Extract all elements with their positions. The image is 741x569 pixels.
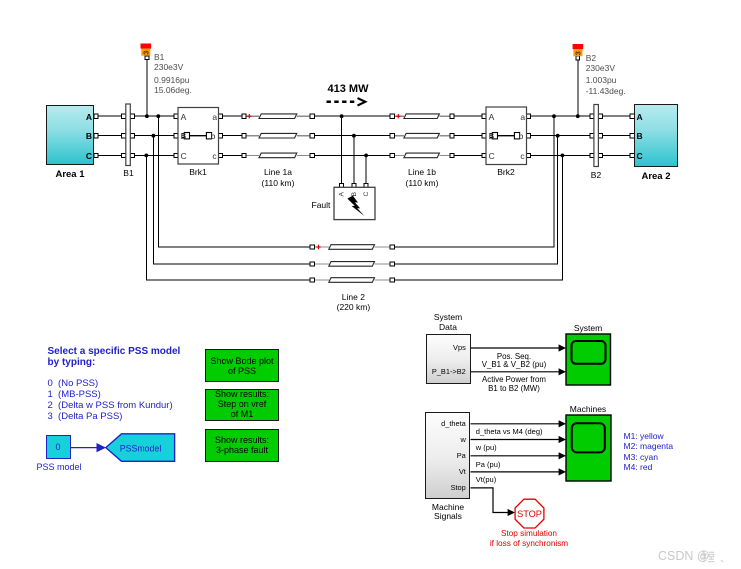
watermark CSDN: [658, 549, 710, 563]
wire line2 stub right: [375, 246, 393, 248]
wire d_theta to Machines scope: [471, 423, 560, 425]
annotation PSS list: [48, 379, 173, 422]
annotation B1 to B2 MW: [474, 384, 554, 393]
breaker Brk1: [178, 108, 219, 165]
button Show results 3-phase fault: [205, 429, 279, 462]
measurement block B1 (voltage label): [141, 44, 152, 56]
line segment Line2 phase B: [329, 262, 375, 267]
wire Stop to STOP block: [471, 488, 509, 513]
pin label Brk1 A: [181, 112, 187, 122]
label Machine Signals line2: [407, 511, 489, 521]
port Line1a left A: [242, 114, 246, 118]
port B2 right C: [598, 153, 602, 157]
annotation w pu: [476, 443, 497, 452]
junction Line2 tap C right: [561, 154, 565, 158]
wire line1b stub left: [393, 115, 404, 117]
port Brk2 b: [526, 134, 530, 138]
port Brk1 b: [219, 134, 223, 138]
annotation arrow 413 MW: [327, 98, 366, 105]
wire Line2 right tap phase B: [392, 136, 558, 264]
wire line1a stub left: [244, 135, 259, 137]
port B2 measurement: [576, 56, 580, 60]
scope Machines: [566, 415, 611, 481]
pin label Brk1 a: [212, 112, 217, 122]
port B1 right A: [130, 114, 134, 118]
wire line1b stub left: [393, 135, 404, 137]
port Brk2 C: [482, 153, 486, 157]
pin label w: [405, 435, 466, 444]
bus B1: [126, 104, 131, 166]
wire Line1b C to Brk2: [454, 154, 486, 156]
label Area 2: [626, 171, 686, 182]
port Fault A: [340, 183, 344, 187]
scope System: [566, 334, 611, 385]
line segment Line1b phase A: [404, 114, 440, 119]
subsystem Machine Signals: [425, 412, 470, 499]
wire line1b stub left: [393, 154, 404, 156]
wire Line2 right tap phase C: [392, 155, 562, 280]
port Line2 right 3: [390, 278, 394, 282]
port label Area2 B: [637, 131, 643, 141]
wire B1 B to Brk1: [134, 135, 178, 137]
wire Brk2 B to B2: [527, 135, 590, 137]
pin label Brk2 a: [520, 112, 525, 122]
port Area2 C: [630, 153, 634, 157]
annotation d_theta vs M4: [476, 427, 543, 436]
annotation Vt pu: [476, 475, 496, 484]
annotation M1-M4 colors: [624, 431, 674, 473]
port label Area2 A: [637, 112, 643, 122]
wire Line1b B to Brk2: [454, 135, 486, 137]
port B2 left A: [590, 114, 594, 118]
wire line2 stub right: [375, 263, 393, 265]
breaker Brk2: [486, 107, 527, 165]
port Brk1 a: [219, 114, 223, 118]
wire B2 C to Area2: [602, 154, 634, 156]
red marker Line1a: [247, 114, 251, 118]
port B2 left C: [590, 153, 594, 157]
label Machine Signals line1: [407, 502, 489, 512]
label Line 1a km: [248, 178, 308, 188]
wire Line2 left tap phase A: [158, 116, 310, 247]
junction Line2 tap B right: [556, 134, 560, 138]
pin label Brk1 c: [212, 151, 216, 161]
annotation V_B1 V_B2: [474, 360, 554, 369]
port Brk2 B: [482, 134, 486, 138]
label Area 1: [40, 169, 100, 180]
bus B2: [594, 105, 599, 167]
port Line2 right 1: [390, 245, 394, 249]
label System Data line1: [407, 312, 489, 322]
wire line1a stub right: [297, 115, 312, 117]
text B2 voltage: [586, 63, 615, 73]
svg-text:PSSmodel: PSSmodel: [120, 443, 162, 453]
port Brk2 a: [526, 114, 530, 118]
pin label Brk2 c: [520, 151, 524, 161]
wire line2 stub left: [312, 246, 329, 248]
line segment Line1a phase C: [259, 153, 297, 158]
text B1 angle: [154, 85, 192, 95]
wire B1 A to Brk1: [134, 115, 178, 117]
port Brk1 c: [219, 153, 223, 157]
port label Area1 B: [80, 131, 92, 141]
pin label Brk2 b: [519, 131, 524, 141]
wire line1b stub right: [439, 154, 451, 156]
annotation Pos Seq: [474, 352, 554, 361]
port Area1 A: [94, 114, 98, 118]
port Brk1 C: [174, 153, 178, 157]
line segment Line2 phase C: [329, 278, 375, 283]
line segment Line1b phase C: [404, 153, 440, 158]
label Line 1b: [392, 167, 452, 177]
pin label Brk2 C: [489, 151, 495, 161]
label Fault: [312, 200, 331, 210]
port Line2 left 2: [310, 262, 314, 266]
pin label d_theta: [405, 419, 466, 428]
junction B1 measurement tap: [145, 114, 149, 118]
junction fault tap A: [340, 114, 344, 118]
annotation Active Power: [474, 375, 554, 384]
port B1 left B: [122, 134, 126, 138]
wire Line1a B to Line1b: [314, 135, 391, 137]
wire Brk1 B to Line1a: [219, 135, 243, 137]
wire fault tap C: [365, 155, 367, 183]
subsystem System Data: [426, 334, 471, 384]
pin label Brk1 C: [181, 151, 187, 161]
text B2 pu: [586, 75, 617, 85]
measurement block B2 (voltage label): [573, 44, 584, 56]
junction Line2 tap B left: [152, 134, 156, 138]
STOP simulation block: [515, 499, 544, 528]
port Brk2 A: [482, 114, 486, 118]
port Area1 B: [94, 134, 98, 138]
wire Line2 left tap phase B: [153, 136, 310, 264]
wire Line2 right tap phase A: [392, 116, 554, 247]
port Line2 left 1: [310, 245, 314, 249]
wire Line1b A to Brk2: [454, 115, 486, 117]
wire B2 measurement stem: [577, 60, 579, 116]
goto tag PSSmodel: [106, 434, 175, 462]
port label Area1 C: [80, 151, 92, 161]
wire w to Machines scope: [471, 439, 560, 441]
port Line1a left B: [242, 134, 246, 138]
port B1 left A: [122, 114, 126, 118]
port Fault C: [364, 183, 368, 187]
line segment Line2 phase A: [329, 245, 375, 250]
pin label Brk2 A: [489, 112, 495, 122]
port B1 measurement: [145, 56, 149, 60]
text B1 pu: [154, 75, 189, 85]
red marker Line1b: [396, 114, 400, 118]
text B1 measurement name: [154, 52, 164, 62]
label Machines scope: [555, 404, 621, 414]
svg-text:B: B: [351, 192, 358, 197]
label System Data line2: [407, 322, 489, 332]
wire Brk1 A to Line1a: [219, 115, 243, 117]
port Line1a right C: [310, 153, 314, 157]
value 0: [46, 442, 70, 452]
fault block (3-phase fault): [334, 187, 375, 219]
port Line1b right A: [450, 114, 454, 118]
pin label Brk1 B: [181, 131, 187, 141]
svg-text:C: C: [363, 192, 370, 197]
port Area2 A: [630, 114, 634, 118]
label PSS model: [29, 462, 89, 472]
port B1 left C: [122, 153, 126, 157]
port Line1b right C: [450, 153, 454, 157]
wire Brk2 A to B2: [527, 115, 590, 117]
junction Line2 tap A left: [156, 114, 160, 118]
wire line1b stub right: [439, 135, 451, 137]
port Line1b left B: [390, 134, 394, 138]
svg-text:3: 3: [574, 51, 583, 55]
line segment Line1a phase A: [259, 114, 297, 119]
port Line1b right B: [450, 134, 454, 138]
junction Line2 tap A right: [552, 114, 556, 118]
button Show results Step on vref of M1: [205, 389, 279, 422]
wire Vps to System scope: [471, 347, 560, 349]
port Area2 B: [630, 134, 634, 138]
wire B2 B to Area2: [602, 135, 634, 137]
wire Pa to Machines scope: [471, 455, 560, 457]
wire fault tap B: [353, 136, 355, 184]
junction B2 measurement tap: [576, 114, 580, 118]
line segment Line1b phase B: [404, 133, 440, 138]
label Brk1: [173, 167, 223, 177]
wire Vt to Machines scope: [471, 471, 560, 473]
pin label Vt: [405, 467, 466, 476]
port Line2 left 3: [310, 278, 314, 282]
pin label Brk1 b: [211, 131, 216, 141]
svg-text:A: A: [339, 192, 346, 197]
wire Area1 B to B1: [94, 135, 122, 137]
wire line1a stub left: [244, 115, 259, 117]
constant block 0 (PSS model selector): [46, 435, 71, 459]
button Show Bode plot of PSS: [205, 349, 279, 382]
wire B2 A to Area2: [602, 115, 634, 117]
label Line 2 km: [323, 302, 383, 312]
port label Area1 A: [80, 112, 92, 122]
pin label Brk2 B: [489, 131, 495, 141]
red marker Line2: [316, 245, 320, 249]
wire line2 stub left: [312, 279, 329, 281]
label B1: [114, 168, 143, 178]
wire constant to PSSmodel goto: [71, 447, 99, 449]
junction fault tap B: [352, 134, 356, 138]
wire Line2 left tap phase C: [146, 155, 310, 280]
label Line 1a: [248, 167, 308, 177]
label Brk2: [481, 167, 531, 177]
wire Line1a A to Line1b: [314, 115, 391, 117]
port Area1 C: [94, 153, 98, 157]
wire Area1 C to B1: [94, 154, 122, 156]
wire line1a stub right: [297, 135, 312, 137]
wire Area1 A to B1: [94, 115, 122, 117]
junction Line2 tap C left: [144, 154, 148, 158]
port B2 left B: [590, 134, 594, 138]
port B1 right C: [130, 153, 134, 157]
pin label Pa: [405, 451, 466, 460]
wire B1 C to Brk1: [134, 154, 178, 156]
wire Line1a C to Line1b: [314, 154, 391, 156]
text B2 angle: [586, 86, 626, 96]
port Line1a left C: [242, 153, 246, 157]
subsystem Area 2: [634, 104, 678, 167]
port Line1b left C: [390, 153, 394, 157]
port B2 right B: [598, 134, 602, 138]
wire line2 stub right: [375, 279, 393, 281]
pin label Stop: [405, 483, 466, 492]
pin label P_B1-B2: [405, 367, 466, 376]
port label Area2 C: [637, 151, 643, 161]
text B1 voltage: [154, 62, 183, 72]
wire B1 measurement stem: [146, 60, 148, 117]
text B2 measurement name: [586, 53, 596, 63]
wire line2 stub left: [312, 263, 329, 265]
subsystem Area 1: [46, 105, 94, 165]
annotation Stop simulation caption: [474, 529, 584, 548]
port Line1b left A: [390, 114, 394, 118]
pin label Vps: [405, 343, 466, 352]
wire line1a stub right: [297, 154, 312, 156]
wire line1b stub right: [439, 115, 451, 117]
port Brk2 c: [526, 153, 530, 157]
port Fault B: [352, 183, 356, 187]
label Line 2: [323, 292, 383, 302]
wire line1a stub left: [244, 154, 259, 156]
annotation 413 MW: [318, 83, 378, 95]
junction fault tap C: [364, 154, 368, 158]
port Line1a right B: [310, 134, 314, 138]
port B2 right A: [598, 114, 602, 118]
port Brk1 B: [174, 134, 178, 138]
port Line1a right A: [310, 114, 314, 118]
line segment Line1a phase B: [259, 133, 297, 138]
wire P_B1-B2 to System scope: [471, 371, 560, 373]
annotation Pa pu: [476, 460, 501, 469]
port B1 right B: [130, 134, 134, 138]
wire Brk2 C to B2: [527, 154, 590, 156]
label System scope: [558, 323, 618, 333]
label Line 1b km: [392, 178, 452, 188]
label B2: [581, 170, 611, 180]
wire Brk1 C to Line1a: [219, 154, 243, 156]
port Brk1 A: [174, 114, 178, 118]
svg-text:3: 3: [142, 51, 151, 55]
wire fault tap A: [341, 116, 343, 183]
annotation Select a specific PSS model: [48, 346, 181, 368]
svg-text:STOP: STOP: [517, 509, 542, 519]
port Line2 right 2: [390, 262, 394, 266]
